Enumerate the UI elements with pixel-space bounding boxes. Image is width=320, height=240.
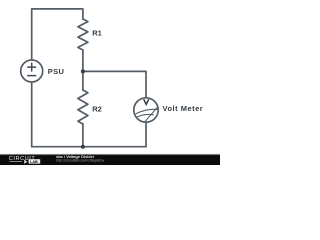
resistor R1 bbox=[78, 19, 88, 50]
wire R1 bottom through node to R2 top bbox=[82, 50, 84, 90]
CircuitLab logo LAB box bbox=[29, 159, 41, 163]
svg-text:LAB: LAB bbox=[30, 160, 38, 164]
node junction dot at tap bbox=[81, 69, 85, 73]
wire R2 bottom to bottom rail bbox=[82, 124, 84, 147]
footer bar bbox=[0, 154, 220, 165]
PSU minus sign bbox=[28, 75, 36, 77]
CircuitLab logo wire glyph bbox=[10, 160, 27, 163]
wire PSU bottom down bbox=[31, 82, 33, 147]
PSU plus sign bbox=[28, 63, 36, 71]
svg-text:PSU: PSU bbox=[48, 67, 64, 76]
volt meter needle bbox=[145, 108, 157, 122]
volt meter lower arc bbox=[137, 114, 154, 117]
svg-text:R2: R2 bbox=[92, 104, 102, 113]
wire PSU top to R1 top bbox=[32, 9, 83, 60]
wire tap node to voltmeter top bbox=[83, 71, 146, 97]
resistor R2 bbox=[78, 90, 88, 124]
volt meter scale arc bbox=[136, 109, 158, 114]
volt meter V marking bbox=[144, 99, 149, 104]
svg-text:Volt Meter: Volt Meter bbox=[163, 104, 204, 113]
node junction dot at bottom rail bbox=[81, 145, 85, 149]
wire bottom rail bbox=[32, 146, 146, 148]
voltage source PSU circle bbox=[21, 60, 43, 82]
wire voltmeter bottom bbox=[145, 122, 147, 147]
volt meter M1 circle bbox=[134, 98, 158, 122]
svg-text:R1: R1 bbox=[92, 29, 102, 38]
svg-text:http://circuitlab.com/c/6ejds1: http://circuitlab.com/c/6ejds1w bbox=[56, 159, 104, 163]
